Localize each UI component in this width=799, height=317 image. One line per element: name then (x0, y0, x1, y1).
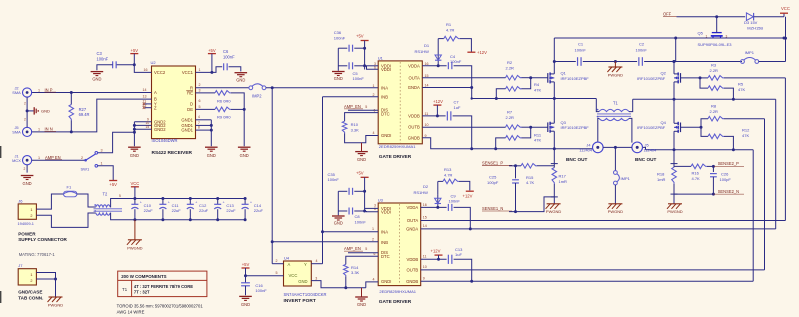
svg-text:DTC: DTC (381, 254, 390, 259)
svg-text:GND2: GND2 (154, 127, 166, 132)
svg-text:+5V: +5V (356, 34, 364, 39)
svg-text:OUTB: OUTB (407, 268, 419, 273)
svg-text:100nF: 100nF (328, 177, 340, 182)
svg-text:GND: GND (241, 302, 250, 307)
svg-text:VCC: VCC (781, 6, 790, 11)
svg-text:GND: GND (357, 302, 366, 307)
svg-text:C7: C7 (454, 99, 460, 104)
svg-text:+12V: +12V (433, 99, 443, 104)
svg-text:DTC: DTC (381, 112, 390, 117)
svg-text:4: 4 (373, 277, 375, 281)
svg-text:4.7R: 4.7R (446, 28, 455, 33)
svg-text:C4: C4 (450, 54, 456, 59)
svg-text:10: 10 (425, 123, 429, 127)
svg-text:INVERT PORT: INVERT PORT (284, 298, 316, 304)
svg-text:Z: Z (154, 105, 157, 110)
svg-text:100nF: 100nF (450, 59, 462, 64)
svg-text:INB: INB (381, 94, 388, 99)
svg-text:GND1: GND1 (181, 128, 193, 133)
svg-text:14: 14 (143, 88, 147, 92)
svg-text:2: 2 (276, 259, 278, 263)
svg-text:47K: 47K (738, 87, 745, 92)
svg-text:R1: R1 (446, 22, 452, 27)
svg-text:22uF: 22uF (226, 208, 236, 213)
svg-text:1: 1 (101, 161, 103, 165)
svg-text:PWGND: PWGND (48, 303, 63, 308)
svg-text:GND: GND (23, 181, 32, 186)
svg-text:1: 1 (706, 35, 708, 39)
svg-text:OFF: OFF (663, 12, 672, 17)
svg-text:+5V: +5V (131, 48, 139, 53)
svg-text:6: 6 (199, 99, 201, 103)
svg-text:AMP_EN: AMP_EN (344, 246, 361, 251)
svg-text:INB: INB (381, 240, 388, 245)
svg-text:1mR: 1mR (657, 177, 666, 182)
svg-text:+12V: +12V (463, 194, 473, 199)
svg-text:GND: GND (236, 78, 245, 83)
svg-text:POWER: POWER (18, 231, 36, 236)
svg-text:GND: GND (240, 153, 249, 158)
svg-text:3: 3 (199, 88, 201, 92)
svg-text:SENSE2_P: SENSE2_P (718, 161, 739, 166)
svg-text:3: 3 (101, 148, 103, 152)
svg-text:2.2R: 2.2R (506, 65, 515, 70)
svg-text:R12: R12 (742, 127, 750, 132)
svg-text:GND: GND (92, 77, 101, 82)
svg-text:BNC OUT: BNC OUT (635, 157, 656, 162)
svg-text:AWG 14 WIRE: AWG 14 WIRE (117, 309, 145, 314)
svg-text:C1: C1 (578, 42, 584, 47)
svg-text:C6: C6 (223, 49, 229, 54)
svg-text:4.7K: 4.7K (692, 176, 701, 181)
svg-text:PWGND: PWGND (667, 209, 682, 214)
svg-text:D1: D1 (424, 43, 430, 48)
svg-text:5: 5 (276, 271, 278, 275)
svg-text:AMP EN: AMP EN (45, 155, 61, 160)
svg-text:R17: R17 (559, 173, 567, 178)
svg-text:1: 1 (30, 208, 32, 212)
svg-text:VCC1: VCC1 (182, 70, 194, 75)
svg-text:SUPPLY CONNECTOR: SUPPLY CONNECTOR (18, 237, 67, 242)
svg-text:VCC: VCC (130, 181, 139, 186)
svg-text:14: 14 (423, 224, 427, 228)
svg-text:2.2R: 2.2R (710, 68, 719, 73)
svg-text:DE: DE (187, 107, 193, 112)
svg-text:5: 5 (365, 247, 367, 251)
svg-text:F1: F1 (67, 185, 72, 190)
svg-text:1uF: 1uF (455, 252, 462, 257)
svg-text:GNDB: GNDB (408, 135, 420, 140)
svg-text:T1: T1 (122, 287, 128, 292)
svg-text:SUP90P06-09L-E3: SUP90P06-09L-E3 (698, 42, 733, 47)
svg-text:GNDI: GNDI (381, 279, 391, 284)
svg-text:GND/CASE: GND/CASE (18, 290, 42, 295)
svg-text:47K: 47K (534, 87, 541, 92)
svg-text:16: 16 (144, 68, 148, 72)
svg-text:R5: R5 (738, 81, 744, 86)
svg-text:6: 6 (374, 207, 376, 211)
svg-text:+12V: +12V (477, 50, 487, 55)
svg-text:GND: GND (334, 220, 343, 225)
svg-text:SN74AHCT1G04DCKR: SN74AHCT1G04DCKR (284, 292, 327, 297)
svg-text:3: 3 (726, 35, 728, 39)
svg-text:VDDI: VDDI (381, 210, 391, 215)
svg-text:MATING: 770617-1: MATING: 770617-1 (19, 252, 56, 257)
svg-text:15: 15 (423, 216, 427, 220)
svg-text:SMA: SMA (12, 90, 21, 95)
svg-text:2EDR8259HXUMA1: 2EDR8259HXUMA1 (379, 289, 416, 294)
svg-text:5: 5 (365, 105, 367, 109)
svg-text:2: 2 (372, 238, 374, 242)
svg-text:D: D (190, 102, 193, 107)
svg-text:PWGND: PWGND (546, 209, 561, 214)
svg-text:R2: R2 (507, 60, 513, 65)
svg-text:2.2R: 2.2R (506, 115, 515, 120)
svg-text:100nF: 100nF (353, 76, 365, 81)
svg-text:IMP2: IMP2 (252, 94, 262, 99)
svg-text:1uF: 1uF (454, 105, 461, 110)
svg-text:100nF: 100nF (97, 56, 109, 61)
svg-text:R6 0R0: R6 0R0 (217, 98, 231, 103)
svg-text:ISO1046DWR: ISO1046DWR (152, 138, 178, 143)
svg-text:T2: T2 (103, 191, 109, 196)
svg-text:4.7R: 4.7R (444, 173, 453, 178)
svg-text:+12V: +12V (431, 249, 441, 254)
svg-text:22uF: 22uF (144, 208, 154, 213)
svg-text:VCC: VCC (289, 273, 298, 278)
svg-text:R13: R13 (444, 167, 452, 172)
svg-text:22uF: 22uF (254, 208, 264, 213)
svg-text:2: 2 (199, 83, 201, 87)
svg-text:5: 5 (199, 105, 201, 109)
svg-text:2: 2 (81, 156, 83, 160)
svg-text:GND: GND (207, 153, 216, 158)
svg-text:100pF: 100pF (720, 177, 732, 182)
svg-text:194009-1: 194009-1 (18, 221, 34, 226)
svg-text:C5: C5 (353, 71, 359, 76)
svg-text:RE: RE (187, 91, 193, 96)
svg-text:MCX: MCX (12, 158, 21, 163)
svg-text:4: 4 (316, 259, 318, 263)
svg-text:PWGND: PWGND (608, 73, 623, 78)
svg-text:GNDB: GNDB (406, 279, 418, 284)
svg-text:T1: T1 (613, 101, 619, 106)
svg-text:R8: R8 (711, 104, 717, 109)
svg-text:OUTA: OUTA (408, 75, 420, 80)
svg-text:PWGND: PWGND (608, 209, 623, 214)
svg-text:VDDB: VDDB (407, 257, 419, 262)
svg-text:+5V: +5V (109, 182, 117, 187)
svg-text:GND: GND (334, 76, 343, 81)
svg-text:IMP1: IMP1 (621, 176, 631, 181)
svg-text:TAB CONN.: TAB CONN. (18, 295, 43, 300)
svg-text:GND: GND (298, 279, 307, 284)
svg-text:7T : 32T: 7T : 32T (134, 290, 150, 295)
svg-text:10: 10 (423, 265, 427, 269)
svg-text:IN N: IN N (45, 127, 53, 132)
svg-text:INA: INA (381, 85, 388, 90)
svg-text:11: 11 (423, 255, 427, 259)
svg-text:IRF1010EZPBF: IRF1010EZPBF (637, 125, 666, 130)
svg-text:IRF1010EZPBF: IRF1010EZPBF (561, 125, 590, 130)
svg-text:69.4R: 69.4R (79, 112, 90, 117)
svg-text:GND: GND (357, 157, 366, 162)
svg-text:VDDI: VDDI (381, 67, 391, 72)
svg-text:INA: INA (381, 230, 388, 235)
svg-text:4: 4 (373, 131, 375, 135)
svg-text:GND: GND (130, 153, 139, 158)
svg-text:+5V: +5V (242, 262, 250, 267)
svg-text:D2: D2 (423, 184, 429, 189)
svg-text:GND: GND (41, 108, 50, 113)
svg-text:RS1HW: RS1HW (414, 190, 429, 195)
svg-text:8: 8 (198, 126, 200, 130)
svg-text:2EDR8259HXUMA1: 2EDR8259HXUMA1 (379, 144, 416, 149)
svg-text:+5V: +5V (356, 170, 364, 175)
svg-text:2: 2 (24, 167, 26, 171)
svg-text:22uF: 22uF (199, 208, 209, 213)
svg-text:112404: 112404 (579, 147, 593, 152)
svg-text:PWGND: PWGND (127, 245, 142, 250)
svg-text:U3: U3 (378, 197, 384, 202)
svg-text:C8: C8 (355, 214, 361, 219)
svg-text:GATE DRIVER: GATE DRIVER (379, 299, 412, 305)
svg-text:3: 3 (315, 276, 317, 280)
svg-text:100pF: 100pF (487, 180, 499, 185)
svg-text:A: A (154, 90, 157, 95)
svg-text:BNC OUT: BNC OUT (566, 157, 587, 162)
svg-text:1: 1 (372, 227, 374, 231)
svg-text:2: 2 (30, 214, 32, 218)
svg-text:13: 13 (143, 95, 147, 99)
svg-text:VCC2: VCC2 (154, 70, 166, 75)
svg-text:3.3K: 3.3K (351, 127, 360, 132)
svg-text:A: A (288, 262, 291, 267)
svg-text:100nF: 100nF (255, 288, 267, 293)
svg-text:VDDA: VDDA (408, 63, 420, 68)
svg-text:2.2R: 2.2R (710, 109, 719, 114)
svg-text:D3 15V: D3 15V (744, 20, 758, 25)
svg-text:IN P: IN P (45, 87, 53, 92)
svg-text:100nF: 100nF (636, 47, 648, 52)
svg-text:SW1: SW1 (81, 166, 90, 171)
svg-text:R15: R15 (526, 175, 534, 180)
svg-text:200 W COMPONENTS: 200 W COMPONENTS (121, 274, 166, 279)
svg-text:100nF: 100nF (223, 54, 235, 59)
svg-text:R18: R18 (657, 171, 665, 176)
svg-text:GNDA: GNDA (408, 85, 420, 90)
svg-text:SMA: SMA (12, 130, 21, 135)
svg-text:IMP1: IMP1 (745, 50, 755, 55)
svg-text:C2: C2 (639, 42, 645, 47)
svg-text:47K: 47K (534, 138, 541, 143)
svg-text:C13: C13 (455, 247, 463, 252)
svg-text:U1: U1 (378, 55, 384, 60)
svg-text:100nF: 100nF (575, 47, 587, 52)
svg-text:4: 4 (198, 115, 200, 119)
svg-text:22uF: 22uF (172, 208, 182, 213)
svg-text:VDDA: VDDA (407, 205, 419, 210)
svg-text:GNDI: GNDI (381, 133, 391, 138)
svg-text:R7: R7 (507, 109, 513, 114)
svg-text:R3: R3 (711, 62, 717, 67)
svg-text:3.3K: 3.3K (351, 270, 360, 275)
svg-text:1: 1 (30, 273, 32, 277)
svg-text:Q5: Q5 (698, 31, 704, 36)
svg-text:1: 1 (38, 128, 40, 132)
svg-text:U4: U4 (284, 255, 290, 260)
svg-text:2: 2 (24, 118, 26, 122)
svg-text:4T : 32T FERRITE 78/79 CORE: 4T : 32T FERRITE 78/79 CORE (134, 284, 193, 289)
svg-text:R16: R16 (692, 170, 700, 175)
svg-text:112404: 112404 (644, 147, 658, 152)
svg-text:IRF1010EZPBF: IRF1010EZPBF (561, 76, 590, 81)
svg-text:2: 2 (30, 279, 32, 283)
svg-text:15: 15 (146, 125, 150, 129)
svg-text:1: 1 (38, 156, 40, 160)
svg-text:SENSE2_N: SENSE2_N (718, 189, 739, 194)
svg-text:MZH15B: MZH15B (747, 25, 763, 30)
svg-text:SENSE1_N: SENSE1_N (482, 206, 503, 211)
svg-text:4.7K: 4.7K (526, 180, 535, 185)
svg-text:OUTA: OUTA (407, 218, 419, 223)
svg-text:2: 2 (373, 93, 375, 97)
svg-text:5: 5 (119, 194, 121, 198)
svg-text:1mR: 1mR (559, 179, 568, 184)
svg-text:9: 9 (423, 276, 425, 280)
svg-text:AMP_EN: AMP_EN (344, 104, 361, 109)
svg-text:16: 16 (423, 203, 427, 207)
svg-text:VDDB: VDDB (408, 114, 420, 119)
svg-text:1: 1 (199, 68, 201, 72)
svg-text:1: 1 (373, 84, 375, 88)
svg-text:R11: R11 (534, 132, 542, 137)
svg-text:1: 1 (38, 88, 40, 92)
svg-text:47K: 47K (742, 133, 749, 138)
svg-text:100nF: 100nF (334, 35, 346, 40)
svg-text:RS422 RECEIVER: RS422 RECEIVER (152, 150, 193, 156)
svg-text:100nF: 100nF (449, 199, 461, 204)
svg-text:TOROID 35.56 mm: 5978002701/59: TOROID 35.56 mm: 5978002701/5980002701 (117, 304, 204, 309)
svg-text:OUTB: OUTB (408, 124, 420, 129)
svg-text:R9 0R0: R9 0R0 (217, 115, 231, 120)
svg-text:2: 2 (24, 102, 26, 106)
svg-text:GND1: GND1 (181, 117, 193, 122)
svg-text:R4: R4 (534, 82, 540, 87)
svg-text:GNDA: GNDA (406, 227, 418, 232)
svg-text:RS1HW: RS1HW (415, 49, 430, 54)
svg-text:U2: U2 (151, 60, 157, 65)
svg-text:GATE DRIVER: GATE DRIVER (379, 154, 412, 160)
svg-text:100nF: 100nF (355, 219, 367, 224)
svg-text:7: 7 (198, 121, 200, 125)
svg-text:SENSE1_P: SENSE1_P (482, 160, 503, 165)
svg-text:+5V: +5V (208, 48, 216, 53)
svg-text:IRF1010EZPBF: IRF1010EZPBF (637, 76, 666, 81)
svg-text:Y: Y (304, 262, 307, 267)
